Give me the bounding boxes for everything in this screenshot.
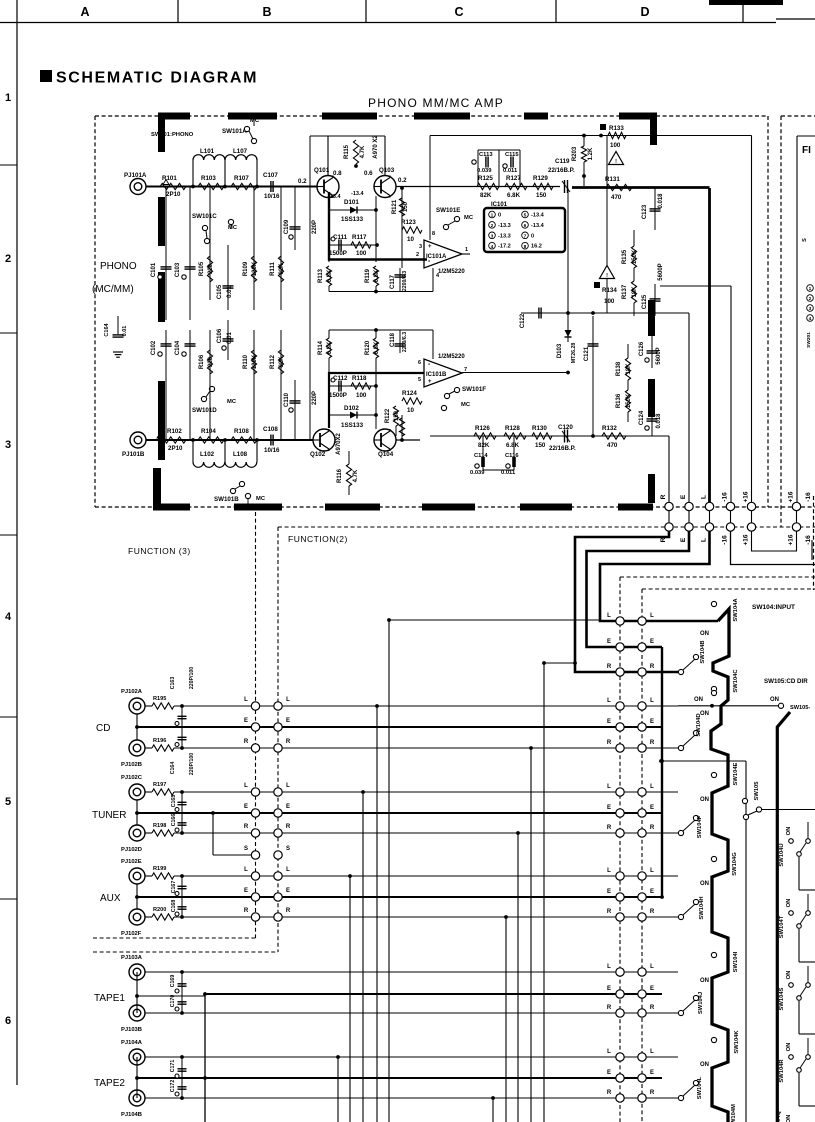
svg-text:0.018: 0.018 (658, 193, 664, 209)
svg-text:SW104R: SW104R (779, 1059, 785, 1083)
svg-text:B: B (262, 5, 271, 19)
svg-text:CD: CD (96, 723, 110, 734)
svg-text:C123: C123 (642, 204, 648, 219)
svg-text:R: R (286, 824, 291, 830)
svg-text:C167: C167 (171, 881, 177, 894)
svg-text:L: L (286, 783, 290, 789)
svg-text:R104: R104 (201, 428, 216, 435)
svg-text:6.8K: 6.8K (327, 269, 333, 282)
svg-text:2P10: 2P10 (166, 191, 181, 198)
svg-text:ON: ON (786, 1043, 792, 1052)
svg-text:R203: R203 (572, 146, 578, 161)
svg-text:R119: R119 (365, 268, 371, 283)
svg-text:R125: R125 (478, 175, 493, 182)
svg-text:0.039: 0.039 (477, 168, 492, 174)
svg-text:2: 2 (809, 296, 812, 302)
svg-text:ON: ON (786, 827, 792, 836)
svg-text:10/16: 10/16 (264, 447, 280, 454)
svg-text:R128: R128 (505, 425, 520, 432)
svg-text:C104: C104 (175, 340, 181, 355)
svg-text:L101: L101 (200, 148, 215, 155)
svg-text:104Q: 104Q (776, 1110, 782, 1122)
svg-text:R101: R101 (162, 175, 177, 182)
svg-text:1SS133: 1SS133 (341, 422, 364, 429)
svg-text:SW201: SW201 (806, 332, 812, 348)
svg-text:R: R (650, 1005, 655, 1011)
svg-text:4: 4 (491, 244, 494, 250)
svg-text:220P/100: 220P/100 (189, 667, 195, 689)
svg-text:PJ102C: PJ102C (121, 775, 143, 781)
svg-text:+16: +16 (788, 491, 795, 502)
svg-text:L: L (650, 613, 654, 619)
svg-text:R116: R116 (337, 468, 343, 483)
svg-text:L: L (650, 1049, 654, 1055)
svg-text:0.018: 0.018 (656, 413, 662, 429)
svg-text:C164: C164 (104, 322, 110, 336)
svg-text:R: R (286, 739, 291, 745)
svg-text:R113: R113 (318, 268, 324, 283)
svg-text:1500P: 1500P (329, 250, 347, 257)
svg-text:R: R (607, 1090, 612, 1096)
svg-text:R: R (244, 739, 249, 745)
svg-text:MT26.28: MT26.28 (571, 343, 577, 364)
svg-text:8: 8 (524, 244, 527, 250)
svg-text:L: L (650, 784, 654, 790)
svg-text:220P/100: 220P/100 (189, 753, 195, 775)
svg-text:L: L (607, 784, 611, 790)
svg-text:FUNCTION(2): FUNCTION(2) (288, 534, 348, 544)
svg-text:3: 3 (491, 233, 494, 239)
svg-text:4: 4 (809, 316, 812, 322)
svg-text:L: L (650, 964, 654, 970)
svg-text:E: E (607, 805, 611, 811)
svg-text:220P: 220P (312, 391, 318, 405)
svg-text:R: R (607, 1005, 612, 1011)
svg-text:E: E (286, 804, 290, 810)
svg-text:0.01: 0.01 (227, 286, 233, 298)
svg-text:PHONO: PHONO (100, 261, 137, 272)
svg-text:16.2: 16.2 (531, 244, 542, 250)
svg-text:TUNER: TUNER (92, 810, 126, 821)
svg-text:0.011: 0.011 (503, 168, 518, 174)
svg-text:2200/6.3: 2200/6.3 (402, 332, 408, 352)
svg-text:MC: MC (227, 399, 237, 405)
svg-text:SW101B: SW101B (214, 496, 239, 503)
svg-text:R108: R108 (234, 428, 249, 435)
svg-text:6.8K: 6.8K (374, 269, 380, 282)
svg-text:R115: R115 (344, 144, 350, 159)
svg-text:SW104S: SW104S (779, 987, 785, 1010)
svg-text:R134: R134 (602, 287, 617, 294)
svg-text:SW104:INPUT: SW104:INPUT (752, 604, 795, 611)
svg-text:L: L (286, 867, 290, 873)
svg-text:100: 100 (610, 142, 621, 149)
svg-text:R: R (650, 664, 655, 670)
svg-text:SW101D: SW101D (192, 407, 217, 414)
svg-text:150K: 150K (626, 393, 632, 408)
svg-text:SW104H: SW104H (699, 896, 705, 919)
svg-text:L: L (650, 868, 654, 874)
svg-text:R: R (607, 664, 612, 670)
svg-text:120K: 120K (252, 354, 258, 369)
svg-text:PJ104B: PJ104B (121, 1112, 142, 1118)
svg-text:R114: R114 (318, 340, 324, 355)
svg-text:150: 150 (394, 410, 400, 421)
svg-text:Q104: Q104 (378, 451, 394, 458)
svg-text:L: L (244, 697, 248, 703)
svg-text:ON: ON (700, 631, 709, 637)
svg-text:R121: R121 (392, 199, 398, 214)
svg-text:L: L (286, 697, 290, 703)
svg-text:L102: L102 (200, 451, 215, 458)
svg-text:82K: 82K (279, 263, 285, 275)
svg-text:1: 1 (809, 286, 812, 292)
svg-text:0.2: 0.2 (398, 177, 407, 184)
svg-text:+: + (428, 379, 432, 385)
svg-text:-16: -16 (722, 492, 729, 502)
svg-text:1500P: 1500P (329, 392, 347, 399)
svg-text:Q102: Q102 (310, 451, 326, 458)
svg-text:4.7K: 4.7K (360, 145, 366, 158)
svg-text:R117: R117 (352, 234, 367, 241)
svg-text:TAPE1: TAPE1 (94, 993, 125, 1004)
svg-text:R133: R133 (609, 125, 624, 132)
svg-text:!: ! (606, 273, 608, 279)
svg-text:3: 3 (809, 306, 812, 312)
svg-text:(MC/MM): (MC/MM) (92, 284, 134, 295)
svg-text:C101: C101 (151, 262, 157, 277)
svg-text:82K: 82K (480, 192, 492, 199)
svg-text:7: 7 (524, 233, 527, 239)
svg-text:ON: ON (700, 978, 709, 984)
svg-text:L: L (607, 964, 611, 970)
svg-text:R198: R198 (153, 823, 166, 829)
svg-text:R109: R109 (243, 261, 249, 276)
svg-text:E: E (607, 1070, 611, 1076)
svg-text:L: L (607, 698, 611, 704)
svg-text:1: 1 (491, 213, 494, 219)
svg-text:PJ102E: PJ102E (121, 859, 142, 865)
svg-text:C107: C107 (263, 172, 278, 179)
svg-text:Q101: Q101 (314, 167, 330, 174)
svg-text:L: L (650, 698, 654, 704)
svg-text:E: E (244, 804, 248, 810)
svg-text:R107: R107 (234, 175, 249, 182)
svg-text:E: E (607, 639, 611, 645)
svg-text:IC101B: IC101B (426, 372, 447, 378)
svg-text:A970 X2: A970 X2 (373, 135, 379, 159)
svg-text:C164: C164 (170, 762, 176, 775)
svg-text:-16: -16 (722, 535, 729, 545)
svg-text:R120: R120 (365, 340, 371, 355)
svg-text:C109: C109 (284, 219, 290, 234)
svg-text:IC101: IC101 (491, 202, 508, 208)
svg-text:C125: C125 (642, 294, 648, 309)
svg-text:1: 1 (465, 247, 468, 253)
svg-text:R: R (607, 825, 612, 831)
svg-text:TAPE2: TAPE2 (94, 1078, 125, 1089)
svg-text:220: 220 (208, 356, 214, 367)
svg-text:S: S (286, 846, 290, 852)
svg-text:+16: +16 (788, 534, 795, 545)
svg-text:C124: C124 (639, 410, 645, 425)
svg-text:R106: R106 (199, 354, 205, 369)
svg-text:PJ103B: PJ103B (121, 1027, 142, 1033)
svg-text:R103: R103 (201, 175, 216, 182)
svg-text:SW104C: SW104C (733, 669, 739, 693)
svg-text:0.6: 0.6 (364, 170, 373, 177)
svg-text:E: E (244, 888, 248, 894)
svg-text:SW101A: SW101A (222, 128, 247, 135)
svg-text:PJ102F: PJ102F (121, 931, 142, 937)
svg-text:C171: C171 (170, 1060, 176, 1073)
svg-text:R: R (650, 740, 655, 746)
svg-text:E: E (286, 718, 290, 724)
svg-text:18K: 18K (632, 286, 638, 298)
svg-text:R200: R200 (153, 907, 166, 913)
svg-text:C163: C163 (170, 677, 176, 690)
svg-text:R105: R105 (199, 261, 205, 276)
svg-text:C166: C166 (171, 814, 177, 827)
svg-text:0.01: 0.01 (227, 332, 233, 344)
svg-text:FI: FI (802, 145, 811, 156)
svg-text:L: L (701, 538, 708, 542)
svg-text:R199: R199 (153, 866, 166, 872)
svg-text:3: 3 (419, 244, 422, 250)
svg-text:C103: C103 (175, 262, 181, 277)
svg-text:6.8K: 6.8K (327, 341, 333, 354)
svg-text:SW104E: SW104E (733, 762, 739, 785)
svg-text:4: 4 (5, 611, 12, 623)
svg-text:SW104I: SW104I (733, 951, 739, 972)
svg-text:-17.2: -17.2 (498, 244, 511, 250)
svg-text:SW104D: SW104D (696, 713, 702, 736)
svg-text:SW104A: SW104A (733, 598, 739, 622)
svg-text:2: 2 (416, 252, 419, 258)
svg-text:MC: MC (228, 225, 238, 231)
svg-text:1/2M5220: 1/2M5220 (438, 269, 465, 275)
svg-text:PHONO MM/MC AMP: PHONO MM/MC AMP (368, 96, 504, 110)
svg-text:5600P: 5600P (658, 263, 664, 280)
svg-text:C168: C168 (171, 900, 177, 913)
svg-text:SW105-: SW105- (790, 705, 810, 711)
svg-text:SW104K: SW104K (734, 1030, 740, 1054)
svg-text:22/16B.P.: 22/16B.P. (548, 167, 575, 174)
svg-text:AUX: AUX (100, 893, 121, 904)
svg-text:E: E (680, 537, 687, 542)
svg-text:D101: D101 (344, 199, 359, 206)
svg-text:PJ103A: PJ103A (121, 955, 143, 961)
svg-text:L: L (607, 1049, 611, 1055)
svg-text:D: D (640, 5, 649, 19)
svg-text:82K: 82K (478, 442, 490, 449)
svg-text:ON: ON (700, 881, 709, 887)
svg-text:R131: R131 (605, 176, 620, 183)
svg-text:MC: MC (250, 118, 260, 124)
svg-text:0.8: 0.8 (333, 170, 342, 177)
svg-text:18K: 18K (626, 363, 632, 375)
svg-text:PJ102D: PJ102D (121, 847, 142, 853)
svg-text:3: 3 (5, 439, 11, 451)
svg-text:C108: C108 (263, 426, 278, 433)
svg-text:2200/6.3: 2200/6.3 (402, 271, 408, 291)
svg-text:SW101C: SW101C (192, 213, 217, 220)
svg-text:R195: R195 (153, 696, 166, 702)
svg-text:A: A (80, 5, 89, 19)
svg-text:R: R (650, 909, 655, 915)
svg-text:ON: ON (694, 697, 703, 703)
svg-text:22/16B.P.: 22/16B.P. (549, 445, 576, 452)
svg-text:5: 5 (418, 377, 421, 383)
svg-text:C116: C116 (505, 453, 519, 459)
svg-text:1SS133: 1SS133 (341, 216, 364, 223)
svg-text:5: 5 (524, 213, 527, 219)
svg-text:1.2K: 1.2K (588, 147, 594, 160)
svg-text:220P: 220P (312, 220, 318, 234)
svg-text:-13.3: -13.3 (498, 233, 511, 239)
svg-text:R123: R123 (401, 219, 416, 226)
svg-text:C121: C121 (584, 346, 590, 361)
svg-text:FUNCTION (3): FUNCTION (3) (128, 546, 191, 556)
svg-text:R: R (607, 740, 612, 746)
svg-text:-16: -16 (805, 492, 812, 502)
svg-text:D102: D102 (344, 405, 359, 412)
svg-text:220: 220 (208, 263, 214, 274)
svg-text:ON: ON (786, 971, 792, 980)
svg-text:C115: C115 (505, 152, 519, 158)
svg-text:C118: C118 (390, 332, 396, 347)
svg-text:SW105: SW105 (754, 781, 760, 801)
svg-text:C172: C172 (170, 1080, 176, 1093)
svg-text:E: E (650, 986, 654, 992)
svg-text:SW104M: SW104M (731, 1104, 737, 1122)
svg-text:0.2: 0.2 (298, 178, 307, 185)
svg-text:L107: L107 (233, 148, 248, 155)
svg-text:C165: C165 (171, 795, 177, 808)
svg-text:MC: MC (256, 496, 266, 502)
svg-text:R126: R126 (475, 425, 490, 432)
svg-text:470: 470 (611, 194, 622, 201)
svg-text:-13.3: -13.3 (498, 223, 511, 229)
svg-text:E: E (650, 639, 654, 645)
svg-text:120K: 120K (252, 261, 258, 276)
svg-text:R: R (650, 825, 655, 831)
svg-text:PJ104A: PJ104A (121, 1040, 143, 1046)
svg-text:S: S (244, 846, 248, 852)
svg-text:C170: C170 (170, 995, 176, 1008)
svg-text:+16: +16 (743, 491, 750, 502)
svg-text:150: 150 (535, 442, 546, 449)
svg-text:R102: R102 (167, 428, 182, 435)
svg-text:8: 8 (432, 231, 435, 237)
svg-text:82K: 82K (279, 356, 285, 368)
svg-text:4.7K: 4.7K (353, 469, 359, 482)
svg-text:R135: R135 (622, 249, 628, 264)
svg-text:E: E (680, 494, 687, 499)
svg-text:C105: C105 (217, 284, 223, 299)
svg-text:6.8K: 6.8K (506, 442, 520, 449)
svg-text:C: C (454, 5, 463, 19)
svg-text:R: R (650, 1090, 655, 1096)
svg-text:E: E (607, 986, 611, 992)
svg-text:L: L (607, 613, 611, 619)
svg-text:C169: C169 (170, 975, 176, 988)
svg-text:6: 6 (5, 1015, 11, 1027)
svg-text:ON: ON (700, 1062, 709, 1068)
svg-text:R: R (607, 909, 612, 915)
svg-text:SW105:CD DIR: SW105:CD DIR (764, 678, 808, 685)
svg-text:A970X2: A970X2 (336, 432, 342, 454)
svg-text:PJ101A: PJ101A (124, 172, 147, 179)
svg-text:R137: R137 (622, 284, 628, 299)
svg-text:2: 2 (491, 223, 494, 229)
svg-text:L: L (244, 783, 248, 789)
svg-text:10: 10 (407, 407, 414, 414)
svg-text:ON: ON (700, 797, 709, 803)
svg-text:MC: MC (461, 402, 471, 408)
svg-text:R112: R112 (270, 354, 276, 369)
svg-text:C122: C122 (520, 313, 526, 328)
svg-text:150: 150 (403, 201, 409, 212)
svg-text:R197: R197 (153, 782, 166, 788)
svg-text:100: 100 (356, 392, 367, 399)
svg-text:R118: R118 (352, 375, 367, 382)
svg-text:ON: ON (786, 1115, 792, 1122)
svg-text:L: L (701, 495, 708, 499)
svg-text:D103: D103 (557, 343, 563, 358)
svg-text:SCHEMATIC DIAGRAM: SCHEMATIC DIAGRAM (56, 70, 258, 87)
svg-text:R132: R132 (602, 425, 617, 432)
svg-text:0: 0 (531, 233, 534, 239)
svg-text:1/2M5220: 1/2M5220 (438, 354, 465, 360)
svg-text:C114: C114 (474, 453, 488, 459)
svg-text:E: E (650, 889, 654, 895)
svg-text:C126: C126 (639, 341, 645, 356)
svg-text:150K: 150K (632, 249, 638, 264)
svg-text:R127: R127 (506, 175, 521, 182)
svg-text:2: 2 (5, 253, 11, 265)
svg-text:1: 1 (5, 92, 11, 104)
svg-text:R: R (660, 494, 667, 499)
svg-text:6: 6 (418, 360, 421, 366)
svg-text:470: 470 (607, 442, 618, 449)
svg-text:R136: R136 (616, 393, 622, 408)
svg-text:R: R (244, 824, 249, 830)
svg-text:R196: R196 (153, 738, 166, 744)
svg-text:PJ101B: PJ101B (122, 451, 145, 458)
svg-text:SW101E: SW101E (436, 207, 460, 214)
svg-text:C102: C102 (151, 340, 157, 355)
svg-text:R110: R110 (243, 354, 249, 369)
svg-text:E: E (650, 805, 654, 811)
svg-text:10: 10 (407, 236, 414, 243)
svg-text:C119: C119 (555, 158, 570, 165)
svg-text:E: E (650, 1070, 654, 1076)
svg-text:SW101F: SW101F (462, 386, 486, 393)
svg-text:150: 150 (536, 192, 547, 199)
svg-text:R138: R138 (616, 361, 622, 376)
svg-text:SW104L: SW104L (697, 1076, 703, 1099)
svg-text:0: 0 (498, 213, 501, 219)
svg-text:5: 5 (5, 796, 11, 808)
svg-text:10/16: 10/16 (264, 193, 280, 200)
svg-text:PJ102B: PJ102B (121, 762, 142, 768)
svg-text:6.8K: 6.8K (507, 192, 521, 199)
svg-text:SW104T: SW104T (779, 915, 785, 938)
svg-text:R111: R111 (270, 261, 276, 275)
svg-text:E: E (650, 719, 654, 725)
svg-text:ON: ON (770, 697, 779, 703)
